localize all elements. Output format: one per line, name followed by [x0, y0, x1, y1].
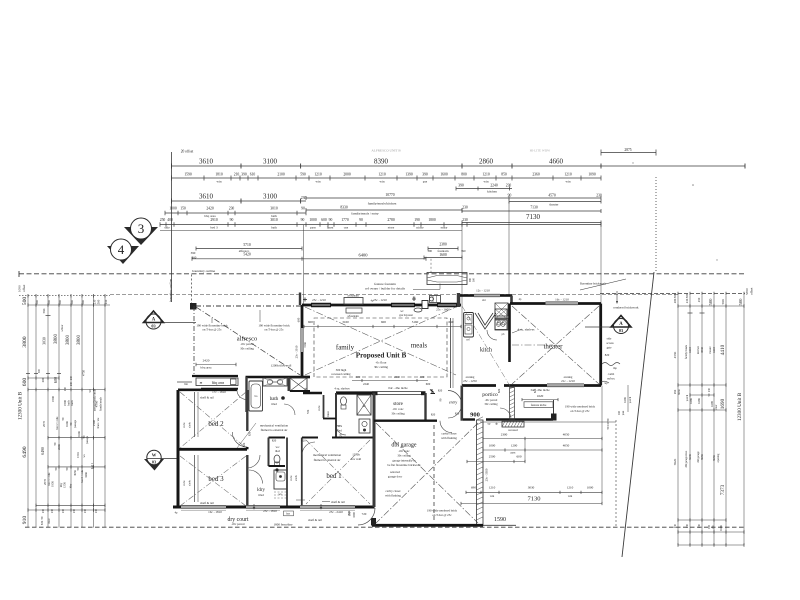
svg-text:win: win: [380, 180, 385, 184]
svg-text:2000: 2000: [343, 173, 351, 177]
third dim line left: [172, 200, 307, 202]
svg-text:600: 600: [308, 320, 313, 324]
svg-text:bin: bin: [184, 383, 188, 386]
bed1 diagonal: [306, 440, 370, 504]
svg-text:90: 90: [359, 218, 363, 222]
alfresco top dashed wall: [196, 305, 302, 307]
portico dims right: [627, 385, 629, 412]
svg-text:25c - 2410: 25c - 2410: [329, 510, 343, 514]
svg-text:590: 590: [42, 308, 46, 313]
svg-text:1210: 1210: [378, 173, 386, 177]
svg-text:store: store: [388, 226, 395, 230]
dim extension theater to bottom: [601, 386, 603, 503]
svg-text:1620: 1620: [537, 394, 544, 398]
svg-text:2300: 2300: [501, 432, 508, 436]
svg-text:3800: 3800: [54, 334, 59, 345]
svg-text:recessed ceiling: recessed ceiling: [331, 372, 351, 376]
svg-text:on T-bar @ 25c: on T-bar @ 25c: [264, 328, 284, 332]
svg-text:110: 110: [708, 524, 711, 529]
svg-text:500: 500: [738, 298, 743, 306]
svg-text:door: door: [48, 518, 51, 523]
svg-text:600: 600: [321, 218, 327, 222]
svg-text:1390: 1390: [405, 173, 413, 177]
mid dashed chain line across: [110, 294, 678, 296]
svg-text:4410: 4410: [712, 347, 716, 354]
svg-text:1090: 1090: [18, 285, 22, 292]
fountain symbol: [427, 273, 467, 285]
bottom fence dashed line: [25, 526, 745, 528]
svg-text:meals: meals: [411, 342, 428, 350]
svg-text:1000: 1000: [587, 486, 594, 490]
corner pantry shelves: [475, 313, 496, 329]
svg-text:230: 230: [73, 508, 76, 513]
svg-text:500: 500: [685, 293, 689, 298]
svg-text:bed 2: bed 2: [208, 420, 224, 428]
second dimension line: [172, 177, 602, 179]
svg-text:m/box: m/box: [607, 377, 615, 381]
svg-text:30c ceiling: 30c ceiling: [374, 365, 388, 369]
svg-text:230: 230: [708, 387, 711, 392]
dashed line post to boundary: [191, 275, 193, 304]
svg-text:on T-bar @ 25c: on T-bar @ 25c: [202, 328, 222, 332]
svg-text:opening: opening: [717, 453, 720, 462]
portico step hatch: [502, 421, 524, 427]
svg-text:3: 3: [138, 221, 145, 236]
svg-text:500: 500: [58, 300, 62, 305]
svg-text:5710: 5710: [243, 243, 251, 247]
section marker W/03: [144, 459, 164, 471]
svg-text:kitch: kitch: [480, 348, 492, 354]
svg-text:1200: 1200: [511, 443, 518, 447]
store south wall: [374, 420, 437, 422]
svg-text:bas: bas: [286, 513, 290, 516]
svg-text:600: 600: [381, 320, 386, 324]
svg-text:25c - 5050: 25c - 5050: [485, 468, 489, 481]
svg-text:90: 90: [230, 218, 234, 222]
svg-text:-0c floor: -0c floor: [375, 361, 387, 365]
wc walls: [269, 437, 286, 439]
svg-text:230: 230: [70, 381, 73, 386]
svg-text:1210: 1210: [564, 173, 572, 177]
left chain row: [28, 389, 105, 391]
svg-text:230: 230: [506, 184, 512, 188]
portico east pillar: [553, 400, 555, 420]
garage right hatched wall: [477, 420, 484, 526]
offset line 2875: [601, 152, 656, 154]
svg-text:7130: 7130: [526, 213, 541, 221]
svg-text:390: 390: [191, 251, 196, 255]
svg-text:230: 230: [42, 508, 45, 513]
left chain line x=36: [35, 296, 37, 528]
svg-text:25c - 1210: 25c - 1210: [373, 298, 387, 302]
svg-text:ALFRESCO UNIT B: ALFRESCO UNIT B: [371, 149, 401, 153]
svg-text:820: 820: [242, 442, 246, 447]
svg-text:1210: 1210: [489, 486, 496, 490]
leader A03 left: [164, 322, 197, 324]
family diagonal 2: [305, 307, 456, 375]
right chain line x=726: [725, 296, 727, 546]
west outer wall: [177, 390, 180, 507]
svg-text:-0lc paved: -0lc paved: [232, 522, 245, 526]
svg-text:600: 600: [22, 378, 28, 387]
svg-text:garage door: garage door: [388, 475, 402, 479]
svg-text:win: win: [217, 180, 222, 184]
connector: [508, 202, 510, 296]
svg-text:tiled: tiled: [258, 493, 264, 497]
svg-text:3010: 3010: [270, 207, 278, 211]
wip bench boxes: [495, 309, 507, 319]
svg-text:1200h tiled wall: 1200h tiled wall: [271, 364, 292, 368]
svg-text:pass: pass: [511, 452, 516, 455]
slanted boundary line right: [622, 272, 654, 557]
svg-text:s/door: s/door: [61, 324, 64, 331]
svg-text:3610: 3610: [199, 193, 214, 201]
svg-text:610: 610: [250, 173, 256, 177]
svg-text:Proposed Unit B: Proposed Unit B: [356, 352, 407, 360]
svg-text:500: 500: [721, 299, 725, 304]
svg-text:190 wide rendered brick: 190 wide rendered brick: [427, 509, 458, 513]
svg-text:21c - 1210: 21c - 1210: [561, 379, 575, 383]
svg-text:ref owner / builder for detail: ref owner / builder for details: [365, 287, 406, 291]
svg-text:230: 230: [84, 508, 87, 513]
svg-text:1590: 1590: [184, 173, 192, 177]
svg-text:2600: 2600: [57, 444, 61, 450]
svg-text:1680: 1680: [689, 398, 693, 404]
left chain line x=59: [58, 296, 60, 528]
svg-text:1770: 1770: [341, 218, 349, 222]
svg-text:800: 800: [461, 173, 467, 177]
svg-text:offset: offset: [750, 287, 754, 295]
front step wall: [457, 293, 460, 307]
alfresco left dashed wall: [193, 306, 195, 375]
svg-text:30c ceiling: 30c ceiling: [240, 347, 254, 351]
svg-text:7130: 7130: [528, 496, 541, 503]
svg-text:90: 90: [301, 207, 305, 211]
svg-text:gate: gate: [607, 346, 613, 350]
svg-text:400: 400: [420, 375, 425, 379]
svg-text:90 110 90: 90 110 90: [607, 418, 610, 429]
svg-text:robe: robe: [289, 475, 293, 481]
svg-text:-0lc paved: -0lc paved: [241, 342, 254, 346]
svg-text:HI-LITE WDW: HI-LITE WDW: [530, 149, 550, 153]
svg-text:820: 820: [248, 431, 252, 436]
svg-text:12300 Unit B: 12300 Unit B: [737, 392, 743, 421]
svg-text:850: 850: [501, 173, 507, 177]
svg-text:2875: 2875: [624, 148, 631, 152]
svg-text:robe: robe: [182, 480, 186, 486]
svg-text:1210: 1210: [567, 486, 574, 490]
right chain line x=744: [743, 296, 745, 546]
svg-text:2970: 2970: [43, 479, 47, 486]
svg-text:4570: 4570: [548, 194, 556, 198]
svg-text:1800: 1800: [428, 218, 436, 222]
svg-text:190: 190: [414, 218, 420, 222]
shower: [288, 377, 290, 391]
svg-text:1200h: 1200h: [352, 453, 360, 457]
dim connector: [524, 439, 526, 462]
svg-text:230: 230: [62, 508, 65, 513]
garage door dashed: [433, 425, 435, 523]
svg-text:820: 820: [272, 439, 277, 443]
left chain line x=71: [70, 296, 72, 528]
window in west wall: [301, 328, 303, 352]
dashed connector 6400 to boundary: [430, 259, 432, 274]
svg-text:door: door: [715, 404, 718, 409]
family left wall upper: [301, 310, 304, 328]
svg-text:250: 250: [104, 299, 108, 304]
svg-text:4560: 4560: [673, 351, 677, 358]
svg-text:gas bayonet: gas bayonet: [399, 313, 413, 317]
svg-text:bed 1: bed 1: [326, 472, 342, 480]
dotted vertical from 2875 to boundary: [655, 177, 657, 272]
svg-text:25c - 3010: 25c - 3010: [295, 345, 299, 358]
svg-text:bath: bath: [271, 226, 277, 230]
svg-text:6400: 6400: [359, 252, 369, 257]
svg-text:3800: 3800: [22, 336, 28, 347]
family diagonal: [305, 307, 456, 375]
svg-text:4410: 4410: [720, 344, 726, 355]
svg-text:family: family: [336, 344, 355, 352]
svg-text:3010: 3010: [270, 218, 278, 222]
recessed ceiling dashed rect: [314, 318, 447, 377]
svg-text:bbq area: bbq area: [212, 381, 225, 385]
fountain planter on wall: [344, 298, 363, 305]
svg-text:≋: ≋: [200, 381, 203, 385]
svg-text:1550: 1550: [63, 482, 67, 488]
svg-text:1690: 1690: [720, 398, 726, 409]
svg-text:mechanical ventilation: mechanical ventilation: [313, 453, 342, 457]
store east wall: [424, 393, 426, 421]
svg-text:linen: linen: [327, 226, 334, 230]
svg-text:1000: 1000: [353, 512, 356, 518]
theater right wall: [599, 304, 602, 386]
family south-west stub: [302, 376, 310, 378]
svg-text:1210: 1210: [314, 173, 322, 177]
bottom line of top block: [160, 230, 462, 232]
svg-text:8390: 8390: [374, 158, 389, 166]
kitchen fixtures: [464, 313, 474, 338]
svg-text:4560: 4560: [95, 400, 99, 407]
connector: [600, 222, 602, 303]
svg-text:1000: 1000: [309, 218, 317, 222]
svg-text:access: access: [606, 341, 614, 345]
left chain line x=48: [47, 296, 49, 528]
svg-text:250: 250: [697, 297, 701, 302]
left chain line x=28: [27, 296, 29, 528]
svg-text:1510: 1510: [76, 452, 80, 458]
svg-text:500: 500: [35, 300, 39, 305]
leader arrow brickwork: [616, 291, 618, 303]
dim connector 483: [482, 422, 484, 503]
svg-text:30c ceiling: 30c ceiling: [397, 454, 411, 458]
svg-text:160: 160: [618, 410, 621, 415]
svg-text:720: 720: [362, 512, 367, 516]
svg-text:1000: 1000: [169, 207, 177, 211]
leader from fountain note: [413, 288, 440, 290]
svg-text:post: post: [622, 411, 625, 416]
svg-text:16c - 1810: 16c - 1810: [208, 510, 222, 514]
svg-text:niche: niche: [416, 226, 424, 230]
svg-text:2970: 2970: [42, 421, 46, 428]
svg-text:12c - 1210: 12c - 1210: [476, 289, 490, 293]
svg-text:4050: 4050: [563, 443, 570, 447]
svg-text:400: 400: [356, 375, 361, 379]
svg-text:ws: ws: [83, 455, 86, 458]
svg-text:with flashing: with flashing: [441, 436, 457, 440]
svg-text:5630: 5630: [688, 454, 692, 460]
svg-text:30c ceiling: 30c ceiling: [391, 412, 405, 416]
svg-text:feature fountain: feature fountain: [374, 282, 396, 286]
svg-text:5160: 5160: [412, 320, 419, 324]
svg-text:680: 680: [41, 377, 45, 382]
right chain line x=678: [677, 296, 679, 546]
svg-text:500: 500: [22, 297, 28, 306]
svg-text:20 offset: 20 offset: [181, 150, 194, 154]
svg-text:250: 250: [160, 218, 166, 222]
svg-text:500: 500: [97, 299, 101, 304]
svg-text:ws: ws: [278, 493, 281, 496]
svg-text:820: 820: [431, 413, 436, 417]
svg-text:300: 300: [38, 368, 41, 373]
svg-text:4410: 4410: [688, 347, 692, 354]
svg-text:flumed to external air: flumed to external air: [261, 428, 288, 432]
svg-text:2380: 2380: [439, 243, 447, 247]
svg-text:1690: 1690: [710, 401, 714, 408]
bath walls: [246, 376, 311, 378]
svg-text:10770: 10770: [385, 193, 394, 197]
svg-text:830: 830: [348, 511, 352, 516]
svg-text:5420: 5420: [243, 253, 251, 257]
svg-text:1950: 1950: [51, 481, 55, 487]
svg-text:tiled: tiled: [336, 429, 342, 433]
connector: [303, 225, 305, 306]
left chain top row: [19, 295, 110, 297]
svg-text:2500: 2500: [489, 455, 496, 459]
svg-text:boundary outline: boundary outline: [192, 269, 216, 273]
svg-text:3800: 3800: [77, 335, 82, 346]
connector: [461, 225, 463, 385]
svg-text:230: 230: [70, 375, 73, 380]
svg-text:90: 90: [329, 218, 333, 222]
svg-text:720: 720: [306, 409, 310, 414]
svg-text:1600: 1600: [440, 173, 448, 177]
svg-text:side: side: [607, 337, 612, 341]
svg-text:5390: 5390: [745, 288, 749, 295]
left chain line x=93.5: [93, 296, 95, 528]
svg-text:3100: 3100: [263, 193, 278, 201]
svg-text:cns: cns: [344, 226, 349, 230]
svg-text:1090: 1090: [588, 173, 596, 177]
bed2 top wall: [178, 388, 237, 391]
svg-text:mechanical ventilation: mechanical ventilation: [260, 424, 289, 428]
svg-text:500: 500: [70, 300, 74, 305]
svg-text:03: 03: [152, 459, 156, 464]
theater south wall: [584, 384, 601, 387]
svg-text:2860: 2860: [479, 158, 494, 166]
garage west wall: [373, 393, 376, 507]
svg-text:bath: bath: [70, 400, 74, 406]
svg-text:500: 500: [673, 293, 677, 298]
svg-text:cavity closer: cavity closer: [385, 489, 400, 493]
svg-text:820: 820: [438, 389, 443, 393]
left chain line x=105: [104, 296, 106, 528]
svg-text:03: 03: [619, 328, 623, 333]
svg-text:600: 600: [517, 455, 522, 459]
6400 dim line: [192, 258, 426, 260]
svg-text:3460: 3460: [84, 472, 88, 478]
svg-text:600: 600: [426, 382, 431, 386]
svg-text:be flat florentine brickwork: be flat florentine brickwork: [387, 463, 421, 467]
svg-text:900: 900: [470, 412, 480, 419]
right chain line x=714: [713, 296, 715, 546]
svg-text:8636: 8636: [678, 389, 681, 395]
svg-text:25c - 1810: 25c - 1810: [263, 509, 277, 513]
svg-text:150: 150: [180, 207, 186, 211]
svg-text:25c - 1600: 25c - 1600: [436, 308, 450, 312]
svg-text:3030: 3030: [43, 337, 47, 345]
svg-text:pas: pas: [423, 180, 428, 184]
svg-text:rendered brickwork: rendered brickwork: [613, 306, 638, 310]
svg-text:230: 230: [596, 194, 602, 198]
svg-text:230: 230: [301, 196, 307, 200]
main top dimension line: [172, 165, 746, 167]
svg-text:500: 500: [47, 300, 51, 305]
svg-text:1000: 1000: [489, 443, 496, 447]
svg-text:910: 910: [22, 516, 28, 525]
bed3 right wall: [246, 455, 248, 507]
kitchen bench: [450, 318, 452, 388]
svg-text:290: 290: [673, 389, 677, 394]
svg-text:passage: passage: [86, 435, 89, 444]
svg-text:2240: 2240: [394, 375, 401, 379]
svg-text:robe: robe: [182, 422, 186, 428]
svg-text:3610: 3610: [199, 158, 214, 166]
svg-text:3930: 3930: [700, 347, 704, 354]
svg-text:7373: 7373: [720, 484, 726, 495]
alfresco roof diagonal: [196, 307, 300, 375]
bed2/bed3 divider: [178, 448, 247, 451]
svg-text:4050: 4050: [563, 432, 570, 436]
svg-text:820: 820: [301, 439, 306, 443]
svg-text:12300 Unit B: 12300 Unit B: [18, 391, 24, 420]
svg-text:2420: 2420: [206, 207, 214, 211]
svg-text:4 sq. shelves: 4 sq. shelves: [334, 387, 350, 391]
svg-text:shelv: shelv: [189, 422, 192, 428]
svg-text:family/meals: family/meals: [100, 397, 103, 411]
svg-text:entry: entry: [441, 226, 448, 230]
svg-text:16c - 1210: 16c - 1210: [555, 298, 569, 302]
svg-text:2100: 2100: [277, 173, 285, 177]
svg-text:1210: 1210: [482, 173, 490, 177]
svg-text:230: 230: [462, 206, 468, 210]
svg-text:win: win: [490, 494, 495, 498]
svg-text:1600: 1600: [439, 253, 447, 257]
svg-text:win: win: [316, 180, 321, 184]
svg-text:04c - dho niche: 04c - dho niche: [388, 386, 408, 390]
svg-text:230: 230: [95, 508, 98, 513]
svg-text:porch: porch: [629, 396, 632, 403]
svg-text:230: 230: [229, 207, 235, 211]
svg-text:cavity closer: cavity closer: [441, 432, 456, 436]
svg-text:2360: 2360: [532, 173, 540, 177]
svg-text:160: 160: [473, 277, 476, 282]
bed2 robe line: [194, 392, 196, 437]
svg-text:shelf & rail: shelf & rail: [200, 396, 214, 400]
svg-text:boundary outline: boundary outline: [169, 278, 173, 302]
svg-text:ldry: ldry: [70, 483, 73, 488]
scan specks: [692, 184, 694, 186]
svg-text:linen: linen: [326, 411, 330, 417]
